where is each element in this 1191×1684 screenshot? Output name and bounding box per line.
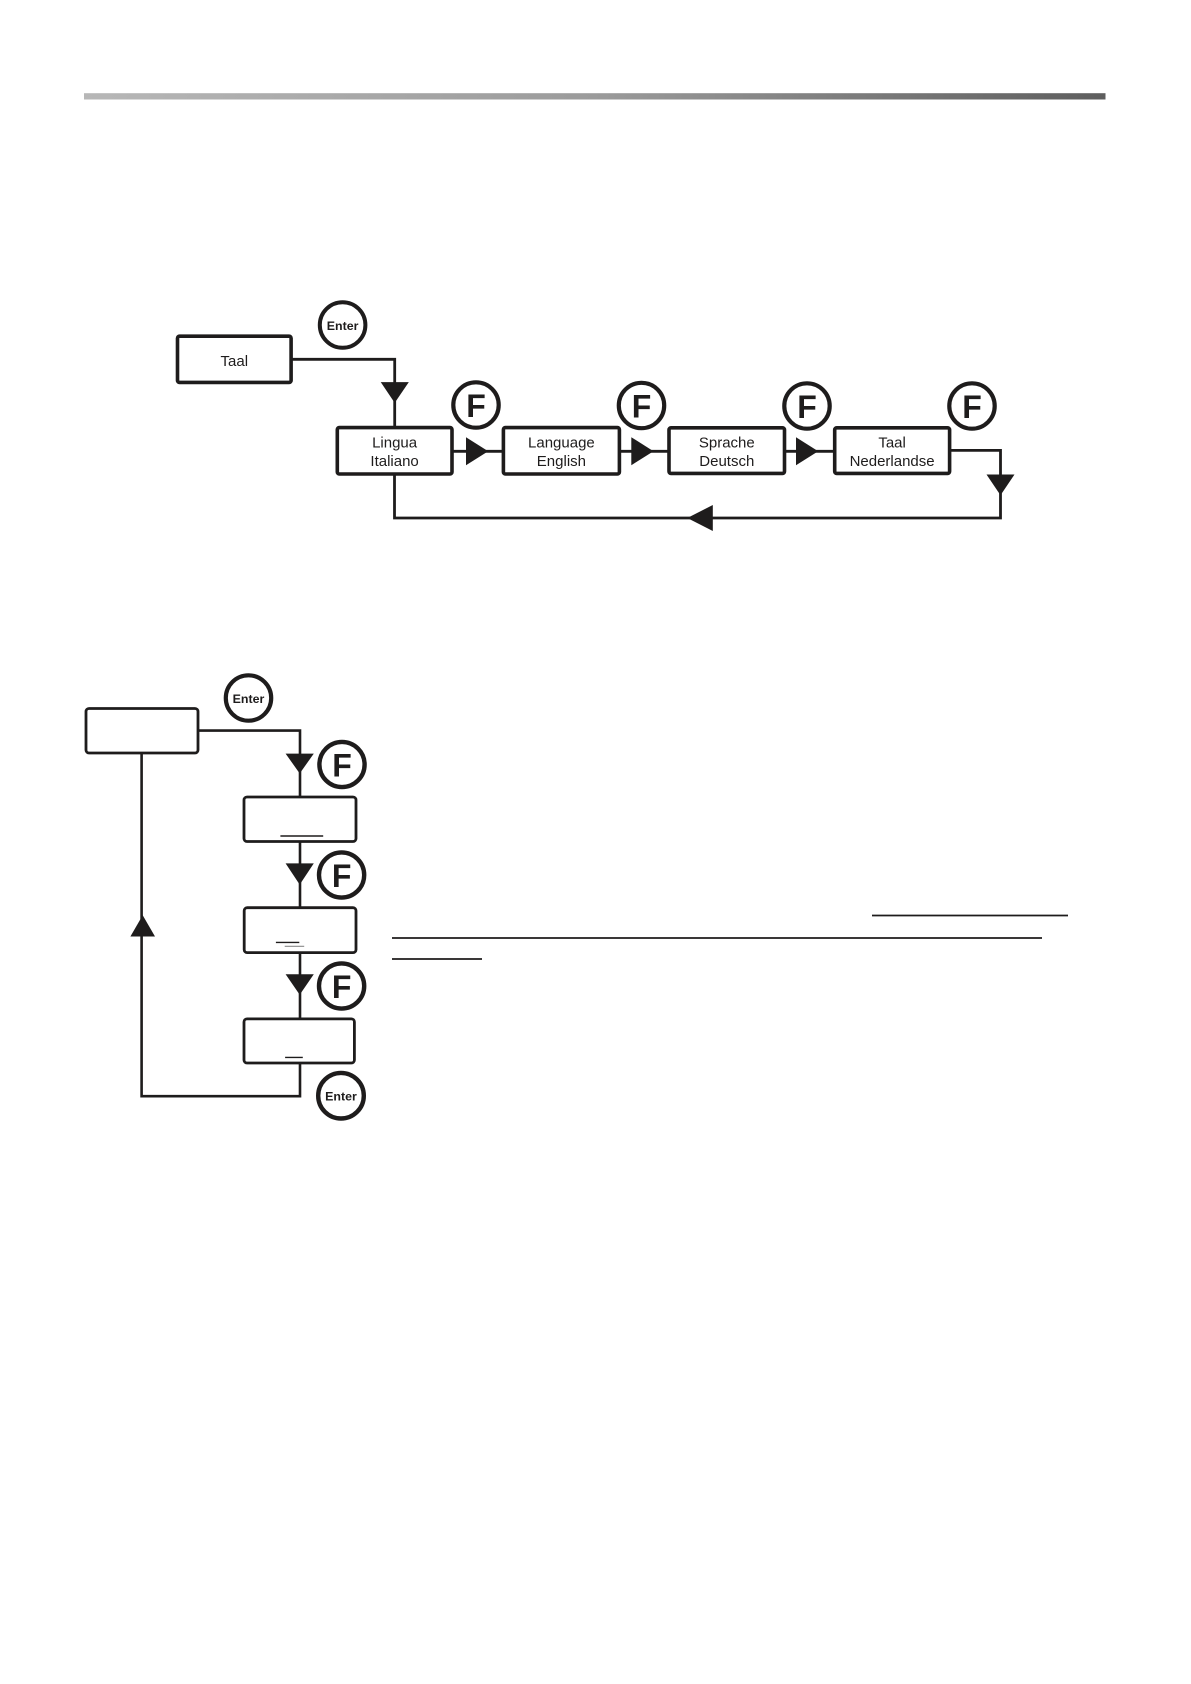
box Taal xyxy=(178,336,292,382)
menu box (empty, top-left) xyxy=(86,709,198,754)
wire Lingua to Language xyxy=(452,450,503,453)
svg-text:English: English xyxy=(537,453,586,470)
residual dot near option box 1 xyxy=(351,815,353,817)
option box 1 (empty) xyxy=(244,797,356,842)
box Lingua Italiano xyxy=(337,428,452,474)
wire Language to Sprache xyxy=(619,450,669,453)
svg-text:Taal: Taal xyxy=(878,434,906,451)
return wire box 3 to menu box xyxy=(142,753,300,1096)
residual underline long middle xyxy=(392,937,1042,939)
F circle A xyxy=(319,742,364,787)
F circle 3 xyxy=(784,383,829,428)
arrowhead down into Lingua xyxy=(381,382,409,403)
loop wire Nederlandse down and back to Lingua xyxy=(395,450,1001,518)
residual dash b in box 2 xyxy=(285,945,305,947)
arrowhead left on loop bottom xyxy=(687,505,713,531)
header gradient rule xyxy=(84,93,1106,99)
arrowhead right 1 xyxy=(466,437,488,465)
option box 3 (empty) xyxy=(244,1019,354,1063)
svg-text:F: F xyxy=(332,748,352,784)
svg-text:F: F xyxy=(466,388,486,424)
svg-text:Enter: Enter xyxy=(233,692,265,706)
residual underline in box 1 xyxy=(280,835,323,837)
box Sprache Deutsch xyxy=(669,428,785,474)
svg-text:F: F xyxy=(962,389,982,425)
F circle 2 xyxy=(619,383,664,428)
residual dash a in box 2 xyxy=(276,941,299,943)
box Taal Nederlandse xyxy=(835,428,950,474)
svg-text:F: F xyxy=(797,389,817,425)
arrowhead down 1 (second chart) xyxy=(286,754,314,774)
svg-text:F: F xyxy=(632,389,652,425)
Enter circle (second chart) xyxy=(226,675,271,720)
F circle 4 xyxy=(949,383,994,428)
arrowhead down 3 (second chart) xyxy=(286,974,314,995)
wire Taal to Lingua xyxy=(291,359,395,427)
svg-text:Sprache: Sprache xyxy=(699,434,755,451)
option box 2 (empty) xyxy=(244,908,356,953)
Enter circle (second chart bottom) xyxy=(318,1073,364,1119)
svg-text:F: F xyxy=(332,858,352,894)
arrowhead right 3 xyxy=(796,437,818,465)
svg-text:Deutsch: Deutsch xyxy=(699,453,754,470)
Enter circle (top chart) xyxy=(320,302,366,348)
svg-text:F: F xyxy=(332,969,352,1005)
F circle C xyxy=(319,963,364,1008)
residual dot in menu box xyxy=(131,738,133,740)
svg-text:Enter: Enter xyxy=(325,1090,357,1104)
wire box 2 to box 3 xyxy=(299,953,302,1019)
arrowhead up on return wire xyxy=(130,915,155,936)
svg-text:Italiano: Italiano xyxy=(370,453,418,470)
arrowhead down 2 (second chart) xyxy=(286,863,314,884)
residual underline in box 3 xyxy=(285,1056,303,1058)
wire box 1 to box 2 xyxy=(299,842,302,908)
svg-text:Taal: Taal xyxy=(221,353,249,370)
residual underline short lower left xyxy=(392,958,482,960)
arrowhead down on right loop leg xyxy=(987,475,1015,496)
wire Sprache to Nederlandse xyxy=(785,450,835,453)
svg-text:Lingua: Lingua xyxy=(372,434,418,451)
arrowhead right 2 xyxy=(631,437,653,465)
svg-text:Enter: Enter xyxy=(327,319,359,333)
svg-text:Language: Language xyxy=(528,434,595,451)
F circle 1 xyxy=(453,382,498,427)
svg-text:Nederlandse: Nederlandse xyxy=(850,453,935,470)
residual underline long upper right xyxy=(872,915,1068,917)
F circle B xyxy=(319,852,364,897)
wire menu box to option box 1 xyxy=(198,731,300,797)
box Language English xyxy=(503,428,619,474)
